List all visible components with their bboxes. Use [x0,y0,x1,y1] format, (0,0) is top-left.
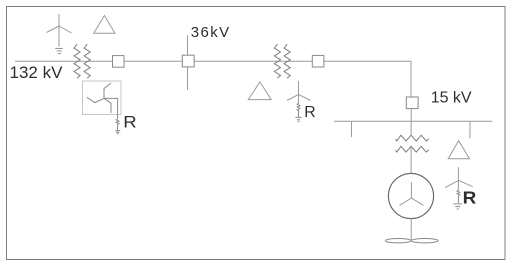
winding wye with resistor (T2 secondary) [287,81,311,103]
wire stub left on 15kV bus [351,121,353,137]
wire feeder drop to 15kV [410,61,412,97]
breaker square 3 (15kV feeder) [406,97,418,109]
motor circle [388,173,433,218]
resistor squiggle (middle) [297,103,300,117]
36kV tee wire [187,35,189,90]
svg-text:15 kV: 15 kV [431,90,472,107]
winding delta (36kV side of T1) [94,16,115,34]
winding delta (T3) [448,141,469,159]
winding wye with resistor (motor neutral) [445,167,473,190]
wye star inside motor [399,182,423,205]
breaker square 1 [113,56,125,68]
winding wye grounded (132kV side) [47,14,72,54]
zigzag earthing winding symbol [87,83,118,119]
svg-text:132 kV: 132 kV [10,63,64,82]
ground (middle) [295,117,301,121]
wire 15kV bus [334,120,492,122]
resistor squiggle (right) [457,190,460,203]
wire 132kV bus [15,60,411,62]
svg-text:R: R [123,113,136,131]
wire square3 to 15kV bus [410,109,412,122]
ground (right) [454,204,463,209]
breaker square 2 [312,55,324,67]
transformer T1 (zigzag pair) [74,44,90,78]
propeller blade left [386,239,412,243]
svg-text:R: R [463,188,477,208]
propeller blade right [411,239,438,243]
wire stub right on 15kV bus [469,121,471,138]
svg-text:36kV: 36kV [191,24,231,41]
winding delta (T2) [248,82,271,100]
svg-text:R: R [304,104,315,121]
transformer T3 zigzag row 1 [396,135,429,141]
ground under resistor [115,131,120,134]
transformer T2 (zigzag pair) [274,44,290,78]
earthing transformer box [83,81,122,115]
wire bus to T3 [410,121,412,135]
transformer T3 zigzag row 2 [396,146,429,152]
wire motor to propeller [410,219,412,241]
breaker square at 36kV tap [182,55,194,67]
resistor squiggle (neutral earthing resistor) [116,119,119,130]
wire T3 to motor [410,146,412,173]
